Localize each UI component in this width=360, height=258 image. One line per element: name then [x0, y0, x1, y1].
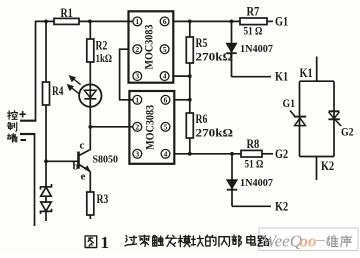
wire R4 branch upper — [45, 21, 47, 82]
resistor R4 — [43, 82, 65, 105]
wire control + terminal — [20, 120, 36, 122]
wire R8 to G2 — [262, 153, 273, 155]
svg-text:6: 6 — [164, 95, 168, 104]
svg-text:5: 5 — [163, 45, 167, 54]
wire R6 bottom — [189, 138, 191, 154]
svg-text:S8050: S8050 — [93, 154, 119, 166]
thyristor V2 (right, G2) — [328, 111, 341, 126]
wire LED bottom — [89, 107, 91, 127]
node LED/collector junction — [88, 125, 92, 129]
svg-text:51 Ω: 51 Ω — [245, 159, 264, 171]
diode D1 1N4007 — [226, 43, 236, 53]
resistor R7 — [240, 4, 267, 25]
resistor R6 — [186, 112, 233, 140]
label 控制端 (control terminal) — [7, 111, 17, 120]
svg-text:K1: K1 — [275, 70, 288, 84]
svg-text:1kΩ: 1kΩ — [96, 51, 113, 65]
resistor R5 — [186, 36, 233, 64]
svg-text:R6: R6 — [196, 112, 208, 126]
caption 过零触发模块的内部电路 (internal circuit of zero-cross trigger module) — [125, 236, 137, 246]
wire U2 pin6 — [174, 99, 190, 101]
node U1 pin4 junction — [188, 74, 192, 78]
svg-text:G2: G2 — [341, 125, 354, 139]
svg-text:K2: K2 — [275, 199, 288, 213]
svg-text:6: 6 — [163, 17, 167, 26]
svg-text:oo: oo — [300, 232, 317, 251]
wire R4 to base node — [45, 105, 47, 161]
svg-text:e: e — [81, 171, 86, 183]
svg-text:R1: R1 — [61, 6, 73, 20]
svg-text:c: c — [80, 140, 85, 152]
svg-text:4: 4 — [163, 72, 167, 81]
svg-text:G1: G1 — [275, 15, 288, 29]
LED arrow 1 — [69, 75, 81, 85]
resistor R2 — [87, 39, 112, 66]
node junction R2 top — [88, 20, 92, 24]
wire U1 pin4 — [173, 75, 190, 77]
svg-text:K1: K1 — [300, 66, 313, 80]
wire R7 to G1 — [267, 20, 273, 22]
watermark 维库 — [327, 236, 338, 247]
node base junction — [44, 159, 48, 163]
wire D2 vertical — [231, 154, 233, 207]
wire output top rail — [173, 20, 240, 22]
wire D1 vertical — [231, 21, 233, 77]
watermark box — [259, 228, 358, 251]
wire control - terminal — [20, 133, 35, 135]
wire collector vertical — [89, 127, 91, 150]
svg-text:R5: R5 — [196, 36, 208, 50]
wire U1 pin2 to U2 pin1 connector — [120, 49, 133, 100]
thyristor V1 (left, G1) — [290, 111, 306, 126]
wire SCR loop — [300, 81, 335, 156]
wire K2 stub bottom (SCR module) — [316, 157, 318, 181]
wire K1 stub top (SCR module) — [316, 57, 318, 82]
node R5 top — [188, 20, 192, 24]
wire R5 top — [189, 21, 191, 37]
svg-text:MOC3083: MOC3083 — [142, 24, 155, 69]
svg-text:MOC3083: MOC3083 — [143, 105, 156, 150]
svg-text:R3: R3 — [97, 192, 109, 206]
LED D3 indicator — [79, 84, 101, 107]
svg-text:1: 1 — [101, 233, 110, 252]
zener diode VZ2 (cathode down) — [41, 202, 52, 214]
wire zener chain bottom — [45, 211, 47, 221]
svg-text:1: 1 — [135, 17, 139, 26]
node D1 top — [230, 20, 234, 24]
wire R3 bottom stub — [89, 215, 91, 219]
svg-text:4: 4 — [164, 149, 168, 158]
svg-text:R7: R7 — [247, 4, 260, 19]
svg-text:1N4007: 1N4007 — [240, 177, 274, 189]
svg-text:b: b — [73, 161, 79, 173]
svg-text:5: 5 — [164, 122, 168, 131]
svg-text:R8: R8 — [247, 136, 260, 151]
caption 图1 (Figure 1) — [85, 236, 97, 248]
watermark WeeQoo logo — [262, 230, 326, 251]
svg-text:WeeQ: WeeQ — [262, 232, 302, 251]
wire control - vertical down — [34, 134, 36, 226]
wire U2 pin4 to R8 — [174, 153, 241, 155]
op-amp U2 MOC3083 (lower optocoupler) — [129, 91, 174, 164]
svg-text:G2: G2 — [275, 147, 288, 161]
svg-text:270kΩ: 270kΩ — [196, 127, 234, 140]
wire base — [46, 160, 78, 162]
wire between zeners — [45, 196, 47, 202]
node R6 bottom junction — [188, 152, 192, 156]
diode D2 1N4007 — [227, 180, 237, 190]
wire R2 top — [89, 21, 91, 39]
transistor Q1 S8050 — [79, 150, 119, 173]
node U2 pin6 junction — [188, 98, 192, 102]
wire K2 — [232, 205, 271, 207]
label + — [20, 111, 26, 118]
svg-text:1: 1 — [135, 95, 139, 104]
wire R5 to R6 — [189, 63, 191, 113]
svg-text:R4: R4 — [52, 84, 64, 98]
resistor R3 — [87, 192, 109, 215]
wire K1 — [232, 76, 272, 78]
wire junction to chip2 pin2 — [90, 126, 133, 128]
wire U1 pin1 stub — [129, 20, 134, 22]
svg-text:2: 2 — [135, 45, 139, 54]
svg-text:3: 3 — [135, 149, 139, 158]
node junction R4 top — [44, 20, 48, 24]
resistor R1 — [54, 6, 79, 25]
node D2 top — [230, 152, 234, 156]
zener diode VZ1 (cathode up) — [41, 184, 52, 196]
wire to zener chain — [45, 161, 47, 187]
wire emitter to R3 — [89, 172, 91, 193]
svg-text:51 Ω: 51 Ω — [244, 26, 263, 38]
svg-text:K2: K2 — [321, 159, 334, 173]
op-amp U1 MOC3083 (upper optocoupler) — [129, 11, 174, 82]
svg-text:–: – — [316, 230, 326, 249]
svg-text:1N4007: 1N4007 — [240, 43, 274, 55]
svg-text:2: 2 — [135, 122, 139, 131]
svg-text:G1: G1 — [283, 96, 296, 110]
svg-text:3: 3 — [135, 72, 139, 81]
wire R2 to LED — [89, 62, 91, 85]
wire control + vertical — [35, 21, 37, 121]
LED arrow 2 — [67, 84, 79, 94]
label - — [21, 139, 27, 141]
resistor R8 — [241, 136, 262, 157]
wire top rail left (input side) — [36, 20, 55, 22]
